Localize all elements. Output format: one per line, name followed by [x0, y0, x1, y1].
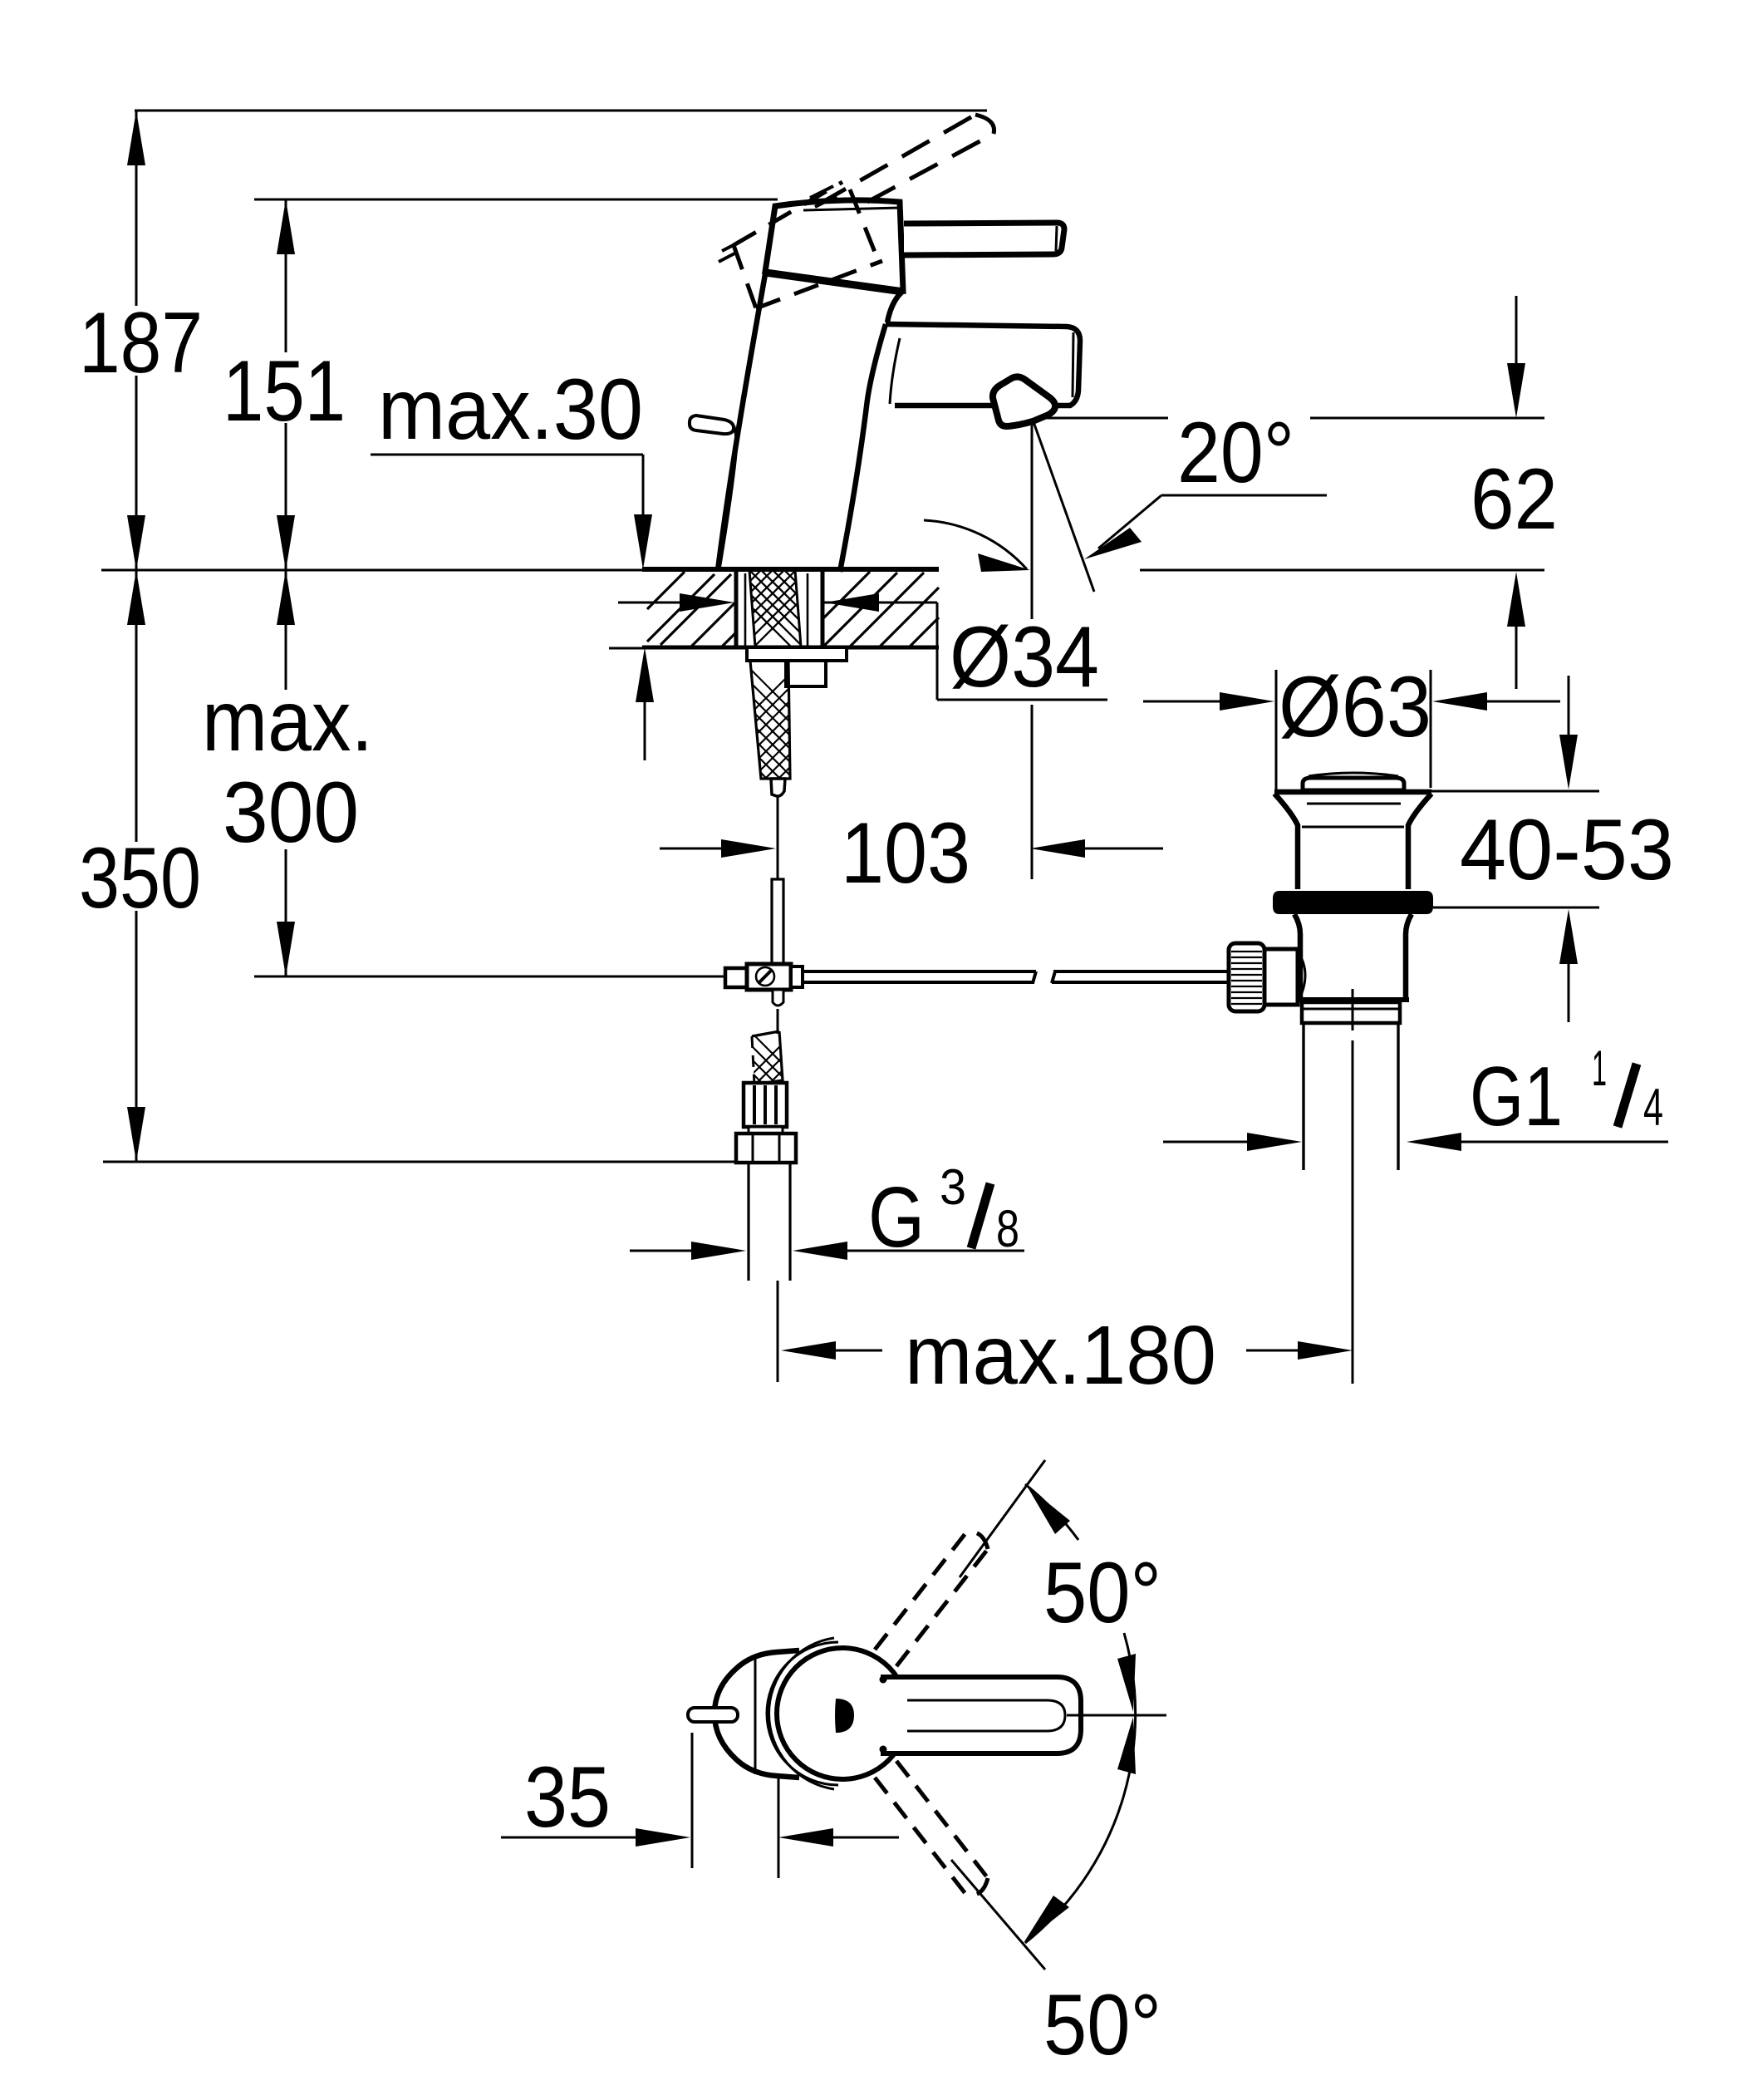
svg-text:20°: 20°: [1177, 405, 1294, 501]
side knob (knurled): [1229, 943, 1264, 1011]
arc end arrowheads: [1027, 1486, 1070, 1534]
clevis block: [747, 964, 791, 990]
shank tube left wall: [744, 573, 747, 647]
arrow 151 top: [277, 199, 295, 254]
extension lines: [960, 1460, 1045, 1577]
handle circle: [777, 1648, 908, 1779]
40-53 dimension: [1431, 790, 1599, 793]
vertical dim line x=164 (187/350): [135, 111, 138, 306]
svg-text:Ø34: Ø34: [950, 609, 1099, 706]
countertop slab bottom: [642, 646, 939, 650]
svg-text:8: 8: [996, 1200, 1019, 1258]
max.180 dimension: [781, 1341, 836, 1360]
lever top view: [881, 1677, 1081, 1753]
svg-text:Ø63: Ø63: [1279, 659, 1431, 755]
pop-up lever at back: [734, 426, 736, 462]
svg-text:4: 4: [1643, 1079, 1663, 1137]
baseline extension left of counter: [101, 569, 642, 572]
dashed handle body (rotated): [734, 182, 882, 308]
flexible hose upper (crosshatch): [714, 633, 831, 856]
neck right edge: [887, 291, 903, 322]
shank tube right wall: [807, 573, 809, 647]
dim 187 top line: [135, 110, 987, 112]
rod below clevis: [773, 990, 783, 1006]
horizontal rod right segment 1: [803, 971, 1036, 983]
svg-text:35: 35: [524, 1749, 611, 1846]
body below seal: [1294, 914, 1300, 1000]
hole right wall: [821, 569, 825, 647]
svg-text:max.: max.: [202, 673, 373, 770]
Ø63 dimension: [1275, 670, 1278, 789]
countertop slab top: [642, 567, 939, 572]
supply pipe: [747, 1163, 749, 1281]
vertical line from aerator: [1031, 420, 1034, 619]
nose arrows at baseline x=164: [127, 515, 145, 570]
washer bar: [747, 647, 847, 661]
centerline below pipe: [777, 1281, 779, 1382]
svg-text:1: 1: [1592, 1040, 1607, 1096]
horizontal rod right segment 2: [1052, 971, 1229, 983]
G 3/8 dimension: [630, 1250, 695, 1252]
thin arcs: [767, 1642, 838, 1785]
neck: [749, 1127, 783, 1134]
right nut: [786, 661, 826, 686]
svg-text:103: 103: [841, 805, 970, 902]
flange: [1274, 792, 1431, 889]
20deg arc with arrow: [924, 520, 1027, 569]
tailpipe: [1302, 1023, 1304, 1170]
solid handle body: [765, 200, 903, 291]
clevis screw circle: [756, 967, 774, 986]
62 top line: [1037, 417, 1168, 420]
pushbutton cap: [1303, 778, 1404, 790]
svg-text:max.30: max.30: [378, 361, 643, 458]
vertical dim line x=344 (151/max300): [285, 199, 287, 352]
centerline: [1352, 989, 1354, 1030]
bottom 350 line: [103, 1161, 738, 1163]
svg-text:300: 300: [223, 765, 359, 861]
aerator tip: [993, 376, 1055, 426]
hose 2 (crosshatched): [723, 1004, 822, 1170]
svg-text:G: G: [868, 1169, 925, 1265]
svg-text:40-53: 40-53: [1460, 802, 1674, 898]
big arc: [1025, 1484, 1078, 1540]
dim 151 top line: [254, 199, 778, 201]
column left edge: [718, 274, 765, 570]
hatching left of hole: [647, 572, 736, 647]
pull rod double: [772, 879, 783, 965]
centerline right: [1067, 1714, 1166, 1717]
nose arrows at baseline x=344: [277, 515, 295, 570]
ball arc: [1298, 952, 1305, 1002]
62 bottom line (counter level right): [1140, 569, 1544, 572]
pop-up rod top view: [688, 1708, 738, 1722]
hex nut: [736, 1134, 796, 1163]
svg-text:187: 187: [79, 295, 203, 391]
62 arrows: [1515, 296, 1518, 366]
svg-text:151: 151: [223, 343, 346, 440]
hole left wall: [734, 569, 739, 647]
slanted 20deg line: [1033, 420, 1094, 592]
svg-text:50°: 50°: [1043, 1545, 1161, 1641]
arrow 187 top: [127, 111, 145, 165]
svg-text:max.180: max.180: [905, 1309, 1216, 1402]
dashed rotated levers: [875, 1532, 988, 1895]
seal (black): [1273, 891, 1433, 914]
rod level line (max300 bottom): [254, 976, 725, 978]
hole dimension arrows (Ø34): [618, 602, 683, 604]
small dots: [880, 1676, 887, 1684]
pull rod thin: [777, 796, 779, 879]
solid lever: [904, 223, 1064, 255]
svg-text:3: 3: [940, 1159, 966, 1215]
base oblong: [714, 1650, 799, 1778]
dashed handle body corner marks: [719, 186, 837, 262]
svg-text:62: 62: [1471, 451, 1558, 548]
clevis right cap: [791, 966, 803, 987]
max30 thickness lower arrow: [636, 647, 654, 702]
spout top edge + end: [886, 324, 1080, 406]
hatching right of hole: [822, 572, 939, 647]
thread section: [1302, 1002, 1400, 1023]
threaded shank in hole (crosshatched): [731, 505, 814, 670]
svg-text:G1: G1: [1470, 1050, 1563, 1143]
pivot blob: [835, 1699, 854, 1733]
svg-text:50°: 50°: [1043, 1977, 1161, 2073]
inner fillet curve: [890, 338, 900, 404]
dashed handle lever rod (rotated): [818, 115, 994, 204]
mid nose arrowheads: [1117, 1654, 1136, 1712]
knob stem: [1264, 949, 1298, 1005]
clevis left cap: [725, 968, 747, 987]
column right S-curve: [840, 324, 886, 572]
fitting with ribs: [744, 1083, 787, 1127]
hose tip: [771, 779, 785, 796]
arrow 350 bottom: [127, 1107, 145, 1162]
svg-text:350: 350: [79, 830, 201, 927]
body top inner line: [803, 208, 900, 210]
arrow max300 bottom: [277, 922, 295, 976]
